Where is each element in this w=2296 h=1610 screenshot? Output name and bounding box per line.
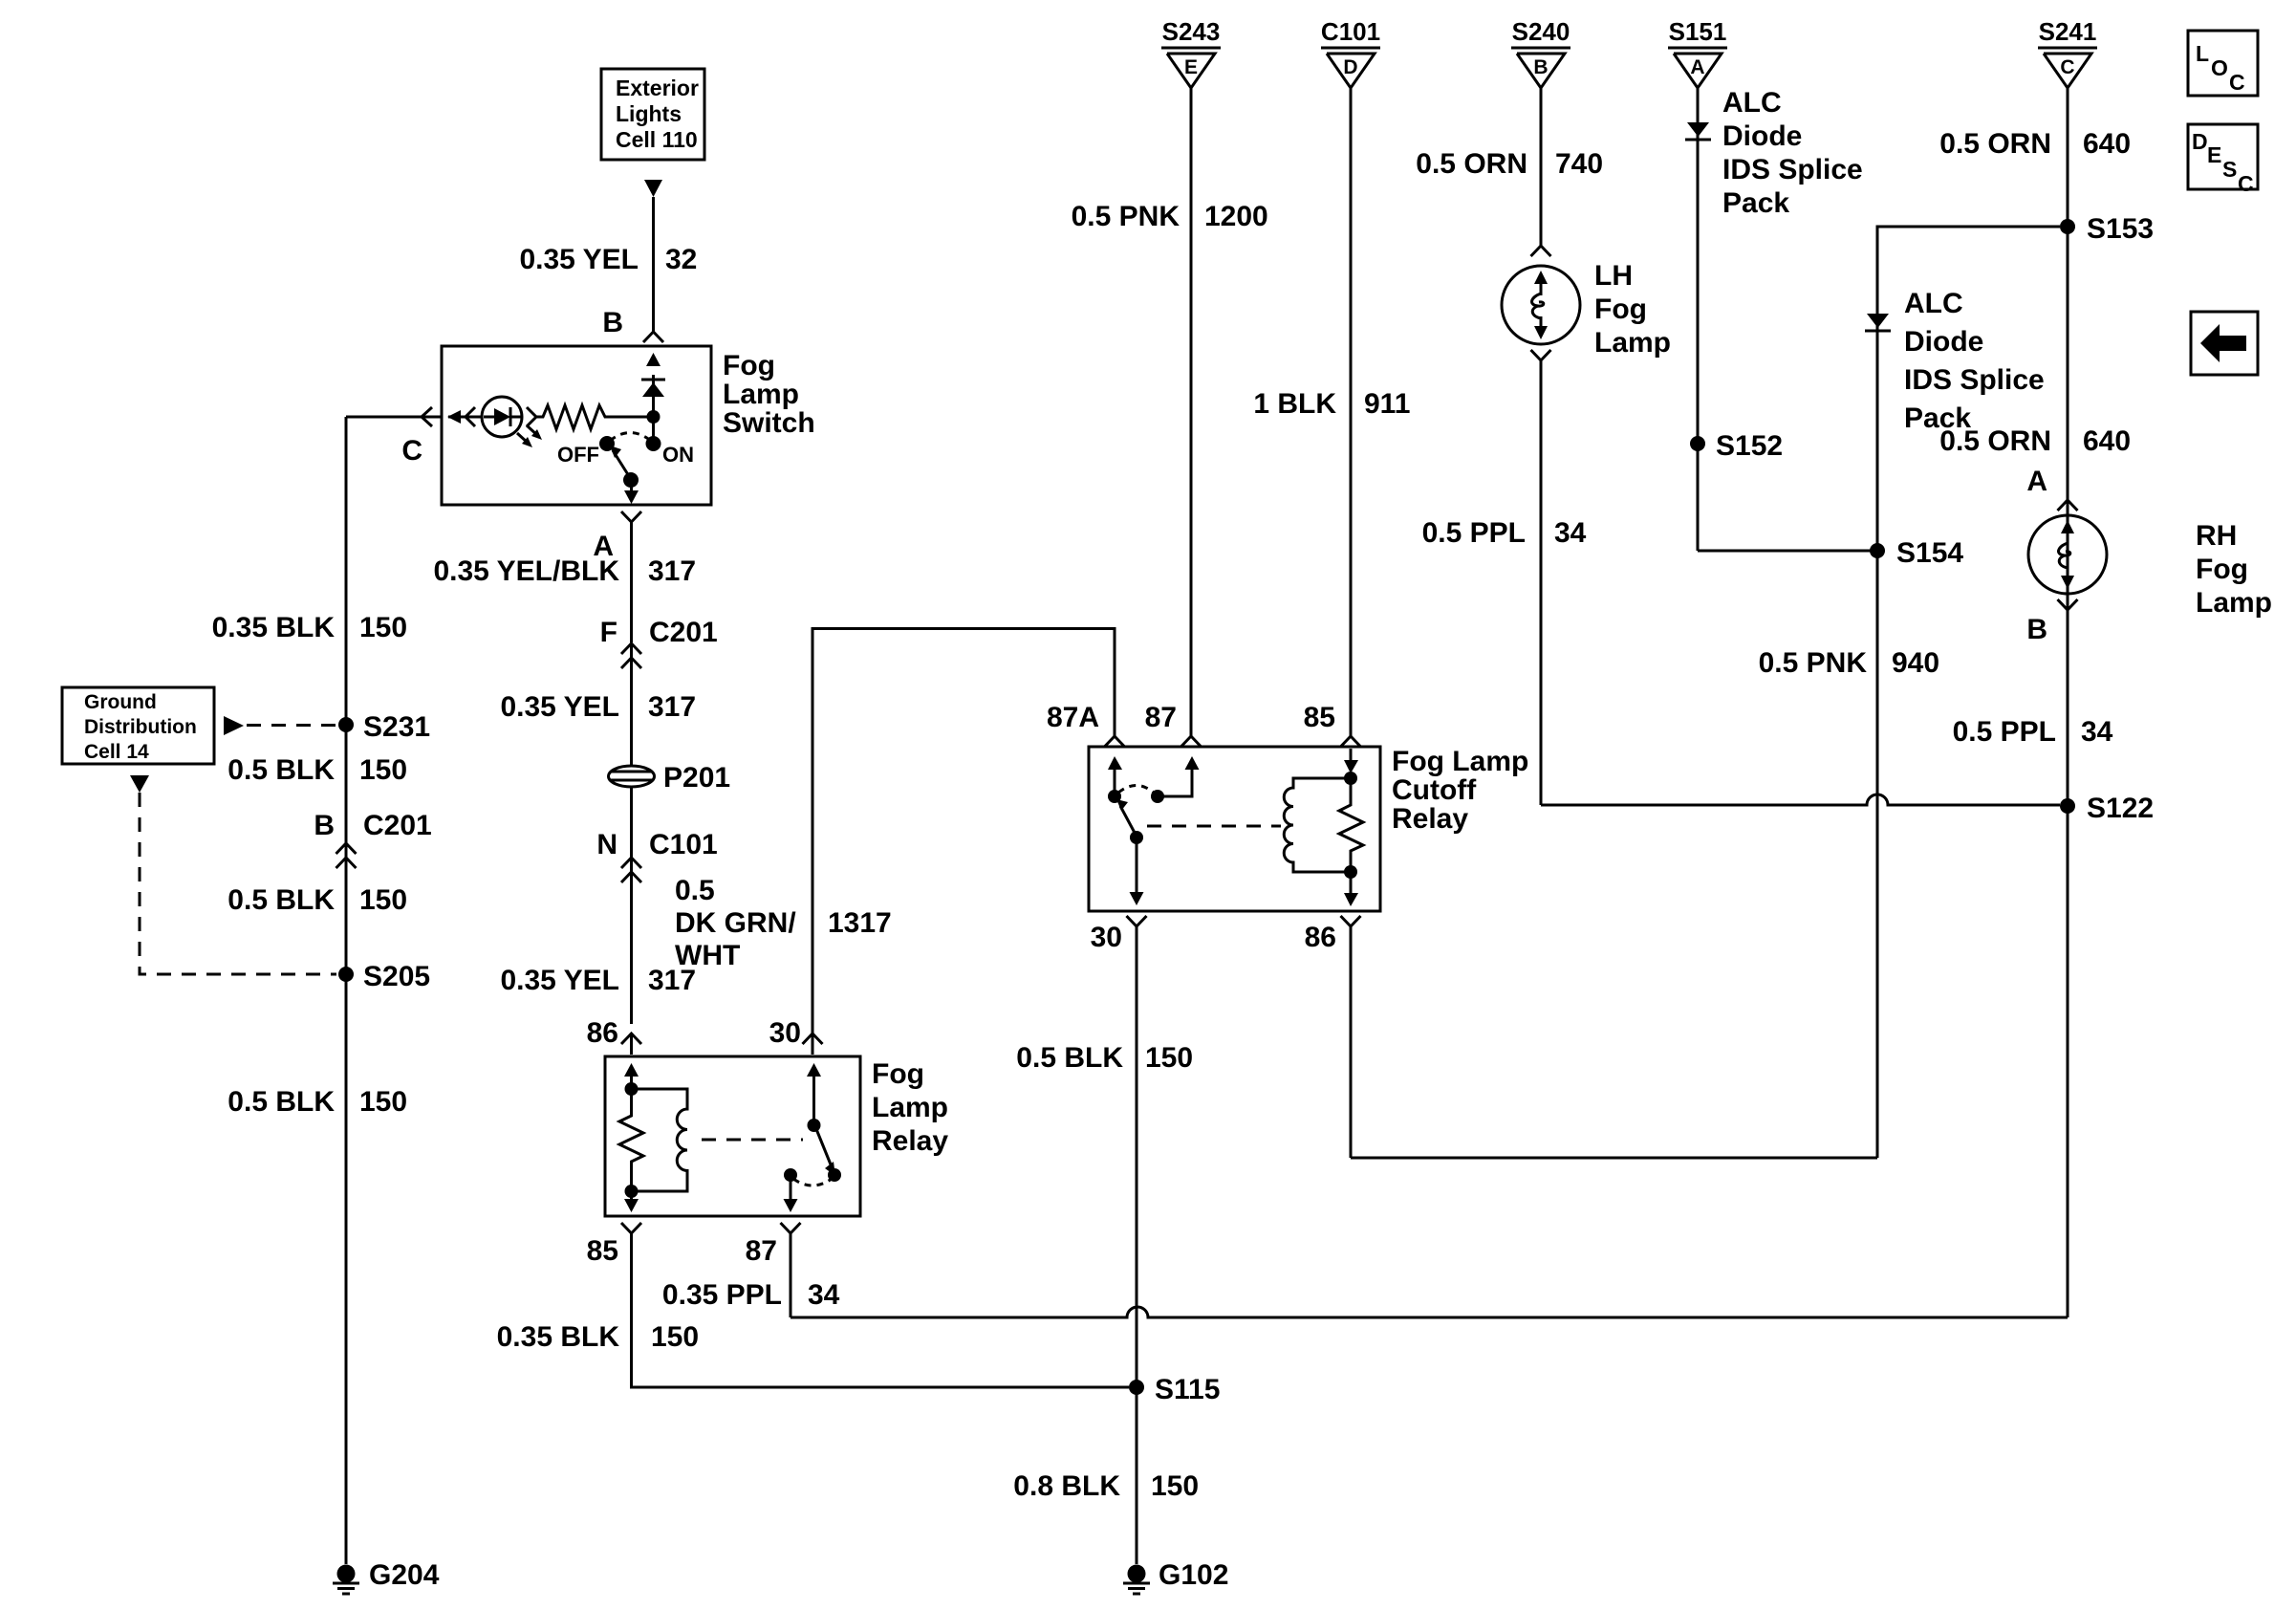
svg-text:Distribution: Distribution (84, 716, 197, 738)
svg-text:1317: 1317 (828, 907, 892, 939)
wire 0.5 ORN 640 upper (1939, 88, 2131, 806)
ground G102 (1123, 1559, 1228, 1594)
splice S231 (338, 711, 430, 743)
wire 0.5 DK GRN/WHT 1317 (500, 858, 891, 1024)
switch pin C wire (346, 416, 442, 419)
svg-text:B: B (602, 307, 623, 338)
svg-text:0.5 PPL: 0.5 PPL (1953, 716, 2056, 748)
dashed reference link to S205 (130, 775, 336, 974)
wire S122 down to relay 87 run (2067, 806, 2069, 1317)
svg-text:940: 940 (1892, 647, 1939, 679)
page connector S243 pin E (1161, 17, 1221, 88)
svg-text:34: 34 (2081, 716, 2113, 748)
cutoff relay pin 86 connector (1305, 916, 1361, 1158)
wire 0.35 PPL 34 from relay pin 87 (662, 1233, 840, 1317)
svg-text:S241: S241 (2039, 17, 2097, 46)
splice S154 (1870, 537, 1963, 569)
svg-text:150: 150 (1151, 1470, 1199, 1502)
ALC diode (left) (1685, 122, 1711, 140)
svg-text:150: 150 (359, 754, 407, 786)
cutoff coil-to-contact dashed link (1147, 825, 1281, 828)
page connector S241 pin C (2038, 17, 2097, 88)
svg-text:0.8 BLK: 0.8 BLK (1013, 1470, 1120, 1502)
svg-text:Fog: Fog (1594, 294, 1647, 325)
svg-text:S151: S151 (1669, 17, 1727, 46)
feed arrow from Exterior Lights (644, 180, 662, 197)
svg-text:Lamp: Lamp (2196, 587, 2272, 619)
svg-text:Relay: Relay (872, 1125, 948, 1157)
relay coil-to-contact dashed link (702, 1139, 803, 1142)
connector C101 pin N (596, 786, 717, 882)
svg-text:34: 34 (808, 1279, 840, 1311)
svg-text:0.5 BLK: 0.5 BLK (227, 1086, 335, 1118)
switch pin B internal arrow (646, 353, 661, 417)
page connector S240 pin B (1511, 17, 1570, 88)
svg-text:S154: S154 (1896, 537, 1963, 569)
svg-text:Exterior: Exterior (616, 76, 699, 100)
svg-text:D: D (2192, 129, 2208, 154)
back arrow box (2191, 312, 2258, 375)
svg-text:85: 85 (1304, 702, 1335, 733)
svg-text:D: D (1343, 56, 1357, 78)
pin A connector of fog lamp switch (593, 511, 641, 562)
svg-text:30: 30 (1091, 922, 1122, 953)
svg-text:Cutoff: Cutoff (1392, 774, 1477, 806)
svg-text:Fog: Fog (2196, 554, 2248, 585)
wire from S151 (1697, 88, 1700, 551)
resistor inside fog lamp relay (619, 1089, 643, 1191)
ALC diode (right) (1865, 314, 1891, 331)
svg-text:87: 87 (746, 1235, 777, 1267)
LH fog lamp (1502, 260, 1671, 359)
svg-text:Lights: Lights (616, 101, 682, 126)
svg-text:Switch: Switch (723, 407, 815, 439)
splice S122 (2060, 793, 2154, 824)
svg-text:Cell 14: Cell 14 (84, 741, 149, 763)
svg-text:Cell 110: Cell 110 (616, 127, 698, 152)
svg-text:C101: C101 (649, 829, 718, 860)
svg-text:0.5 PNK: 0.5 PNK (1072, 201, 1180, 232)
wire S152 to S154 (1698, 550, 1877, 553)
svg-text:85: 85 (587, 1235, 618, 1267)
svg-text:S: S (2222, 157, 2237, 182)
wire 0.8 BLK 150 (1013, 1470, 1199, 1502)
fog lamp relay box (605, 1056, 948, 1216)
svg-text:G204: G204 (369, 1559, 440, 1591)
svg-text:DK GRN/: DK GRN/ (675, 907, 796, 939)
ALC Diode IDS Splice Pack label (left) (1722, 87, 1863, 219)
svg-text:C: C (401, 435, 422, 467)
wire junction to ON contact (652, 417, 655, 443)
svg-text:Fog: Fog (872, 1058, 924, 1090)
svg-text:0.5 ORN: 0.5 ORN (1939, 128, 2051, 160)
svg-text:OFF: OFF (557, 443, 599, 467)
grommet P201 (609, 762, 731, 794)
svg-text:S240: S240 (1512, 17, 1570, 46)
svg-text:0.5 ORN: 0.5 ORN (1416, 148, 1527, 180)
svg-text:C201: C201 (363, 810, 432, 841)
svg-text:O: O (2211, 55, 2228, 80)
switch lever (610, 446, 629, 476)
splice S205 (338, 961, 430, 992)
wire 0.5 ORN 640 lower label (1939, 425, 2131, 457)
pin C connector (401, 407, 432, 467)
svg-text:0.35 YEL: 0.35 YEL (500, 965, 619, 996)
relay pin 86 internal arrow (624, 1063, 639, 1089)
svg-text:E: E (2207, 142, 2221, 167)
cutoff NC contact and pin 87 link (1118, 756, 1200, 803)
svg-text:0.35 YEL: 0.35 YEL (519, 244, 639, 275)
svg-text:C101: C101 (1321, 17, 1380, 46)
switch pivot and pin A exit (623, 472, 639, 504)
connector C201 pin F (600, 617, 718, 668)
svg-text:C: C (2060, 56, 2074, 78)
svg-text:N: N (596, 829, 617, 860)
svg-text:86: 86 (587, 1017, 618, 1049)
wire 0.5 PNK 940 (cutoff 86 feed) (1351, 647, 1939, 1158)
svg-text:Lamp: Lamp (872, 1092, 948, 1123)
svg-text:34: 34 (1554, 517, 1587, 549)
svg-text:640: 640 (2083, 425, 2131, 457)
svg-text:150: 150 (359, 612, 407, 643)
relay NO contact and pin 87 exit (784, 1168, 833, 1212)
svg-text:317: 317 (648, 965, 696, 996)
RH fog lamp (2028, 515, 2272, 619)
svg-text:G102: G102 (1159, 1559, 1228, 1591)
cutoff coil (1284, 772, 1357, 879)
svg-text:317: 317 (648, 555, 696, 587)
relay pin 30 internal arrow and common contact (807, 1063, 821, 1132)
svg-text:0.5 PPL: 0.5 PPL (1422, 517, 1526, 549)
svg-text:0.35 YEL: 0.35 YEL (500, 691, 619, 723)
fog lamp switch box (442, 346, 815, 505)
wire 0.5 BLK 150 from cutoff pin 30 (1016, 926, 1193, 1564)
relay pin 85 internal arrow (624, 1191, 639, 1212)
wire 0.5 PNK 1200 (1072, 88, 1268, 736)
relay lever (816, 1129, 841, 1182)
svg-text:0.35 BLK: 0.35 BLK (497, 1321, 620, 1353)
wire from relay pin 30 to cutoff relay pin 87A (769, 629, 1115, 1055)
svg-text:30: 30 (769, 1017, 801, 1049)
svg-text:Diode: Diode (1722, 120, 1802, 152)
svg-text:0.5 BLK: 0.5 BLK (1016, 1042, 1123, 1074)
svg-text:A: A (1690, 56, 1704, 78)
svg-text:0.35 YEL/BLK: 0.35 YEL/BLK (433, 555, 619, 587)
coil inside fog lamp relay (632, 1089, 688, 1191)
resistor inside cutoff relay (1339, 778, 1363, 872)
node: switch common junction (647, 410, 661, 424)
svg-text:Lamp: Lamp (723, 379, 799, 410)
svg-text:0.35 PPL: 0.35 PPL (662, 1279, 782, 1311)
switch contacts OFF / ON (557, 433, 694, 468)
svg-text:C: C (2229, 70, 2245, 95)
svg-text:87A: 87A (1047, 702, 1099, 733)
RH fog lamp pin B connector (2026, 599, 2077, 645)
svg-text:32: 32 (665, 244, 697, 275)
LH fog lamp connector (1531, 246, 1551, 256)
wire 0.35 BLK 150 from relay pin 85 (497, 1233, 1129, 1387)
svg-text:C: C (2238, 171, 2254, 196)
connector C201 pin B (ground wire) (314, 810, 431, 868)
node: relay coil top (625, 1082, 639, 1096)
svg-text:E: E (1184, 56, 1198, 78)
pin B connector of fog lamp switch (602, 307, 663, 342)
svg-text:IDS Splice: IDS Splice (1904, 364, 2045, 396)
wire LH lamp ground run to S122 (hops PNK 940 wire) (1541, 794, 2060, 805)
svg-text:S231: S231 (363, 711, 430, 743)
DESC index box (2188, 124, 2258, 196)
LOC index box (2188, 31, 2258, 96)
svg-text:L: L (2196, 41, 2209, 66)
cutoff pin 86 internal arrow (1344, 872, 1358, 906)
fog lamp cutoff relay box (1089, 746, 1528, 911)
indicator LED of fog lamp switch (447, 397, 542, 447)
svg-text:Fog Lamp: Fog Lamp (1392, 746, 1528, 777)
wire 0.5 ORN 740 (1416, 88, 1603, 247)
LH fog lamp lower connector (1531, 350, 1551, 360)
svg-text:S243: S243 (1162, 17, 1221, 46)
svg-text:0.35 BLK: 0.35 BLK (212, 612, 336, 643)
dashed reference link to S231 (224, 716, 336, 735)
svg-text:317: 317 (648, 691, 696, 723)
svg-text:C201: C201 (649, 617, 718, 648)
svg-text:S122: S122 (2087, 793, 2154, 824)
page connector C101 pin D (1321, 17, 1380, 88)
splice S153 (2060, 213, 2154, 245)
relay pin 85 connector (587, 1223, 641, 1267)
svg-text:P201: P201 (663, 762, 730, 794)
svg-text:B: B (1533, 56, 1548, 78)
svg-text:0.5 ORN: 0.5 ORN (1939, 425, 2051, 457)
relay pin 87 connector (746, 1223, 801, 1267)
svg-text:87: 87 (1145, 702, 1177, 733)
svg-text:150: 150 (1145, 1042, 1193, 1074)
cutoff relay pin 87 connector (1145, 702, 1202, 747)
Exterior Lights Cell 110 reference box (601, 69, 704, 160)
node: relay coil bottom (625, 1185, 639, 1198)
svg-text:0.5 BLK: 0.5 BLK (227, 754, 335, 786)
svg-text:0.5: 0.5 (675, 875, 715, 906)
svg-text:S115: S115 (1155, 1374, 1220, 1405)
wire S153 branch to ALC diode (1877, 227, 2060, 1158)
svg-text:ALC: ALC (1722, 87, 1782, 119)
wire 0.5 PPL 34 from RH fog lamp (1953, 716, 2113, 748)
svg-text:150: 150 (359, 884, 407, 916)
wire 0.35 YEL/BLK 317 from pin A (433, 522, 696, 642)
svg-text:740: 740 (1555, 148, 1603, 180)
svg-text:Fog: Fog (723, 350, 775, 381)
cutoff pin 87A internal arrow and common contact (1108, 756, 1122, 803)
svg-text:0.5 BLK: 0.5 BLK (227, 884, 335, 916)
svg-text:1200: 1200 (1204, 201, 1268, 232)
svg-text:ALC: ALC (1904, 288, 1963, 319)
svg-text:1 BLK: 1 BLK (1253, 388, 1336, 420)
ground G204 (333, 1559, 440, 1594)
diode inside fog lamp switch (641, 380, 665, 397)
RH fog lamp pin A connector (2026, 466, 2077, 511)
wire 0.5 PPL 34 from LH fog lamp (1422, 360, 1587, 805)
left ground wire 150 (212, 417, 407, 1564)
cutoff relay pin 30 connector (1091, 916, 1147, 953)
svg-text:LH: LH (1594, 260, 1633, 292)
wire 0.35 YEL 32 to switch pin B (519, 197, 697, 332)
wire 1 BLK 911 (1253, 88, 1410, 736)
svg-text:640: 640 (2083, 128, 2131, 160)
svg-text:IDS Splice: IDS Splice (1722, 154, 1863, 185)
cutoff pin 85 internal arrow (1344, 749, 1358, 773)
resistor inside fog lamp switch (536, 405, 654, 429)
svg-text:Pack: Pack (1722, 187, 1789, 219)
svg-text:S153: S153 (2087, 213, 2154, 245)
cutoff lever (1116, 799, 1135, 833)
svg-text:B: B (314, 810, 335, 841)
long wire relay 87 to S122 (hops BLK 150 wire) (791, 1307, 2068, 1317)
cutoff relay pin 87A connector (1047, 702, 1125, 747)
wire 0.35 YEL 317 (C201 to P201) (500, 643, 696, 767)
svg-text:F: F (600, 617, 617, 648)
svg-text:B: B (2026, 614, 2047, 645)
svg-text:S205: S205 (363, 961, 430, 992)
svg-text:150: 150 (359, 1086, 407, 1118)
svg-text:RH: RH (2196, 520, 2237, 552)
cutoff relay pin 85 connector (1304, 702, 1361, 747)
svg-text:86: 86 (1305, 922, 1336, 953)
splice S115 (1129, 1374, 1220, 1405)
ALC Diode IDS Splice Pack label (right) (1904, 288, 2045, 434)
fog lamp relay pin 86 connector (587, 1017, 641, 1055)
splice S152 (1690, 430, 1783, 462)
svg-text:Ground: Ground (84, 691, 157, 713)
svg-text:Lamp: Lamp (1594, 327, 1671, 359)
svg-text:S152: S152 (1716, 430, 1783, 462)
svg-text:A: A (2026, 466, 2047, 497)
cutoff pivot and pin 30 exit (1130, 831, 1144, 905)
svg-text:Diode: Diode (1904, 326, 1983, 358)
svg-text:911: 911 (1364, 388, 1410, 420)
svg-text:150: 150 (651, 1321, 699, 1353)
page connector S151 pin A (1668, 17, 1727, 88)
svg-text:ON: ON (662, 443, 694, 467)
svg-text:Relay: Relay (1392, 803, 1468, 835)
svg-text:0.5 PNK: 0.5 PNK (1759, 647, 1868, 679)
Ground Distribution Cell 14 reference box (62, 687, 214, 764)
